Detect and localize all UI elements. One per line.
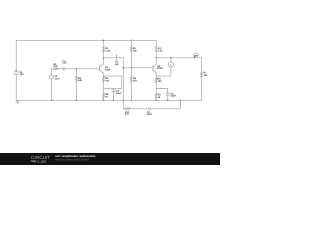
- svg-text:1mV: 1mV: [54, 78, 59, 81]
- svg-text:BC548B: BC548B: [157, 67, 163, 70]
- svg-text:10uF: 10uF: [170, 95, 176, 98]
- svg-text:http://circuitlab.com/c/7a25k2: http://circuitlab.com/c/7a25k2: [55, 159, 89, 162]
- svg-text:33k: 33k: [78, 79, 83, 82]
- svg-text:1.5k: 1.5k: [158, 50, 163, 53]
- svg-text:470: 470: [125, 113, 130, 116]
- svg-text:15k: 15k: [133, 50, 138, 53]
- svg-text:emi / amplificador realimentad: emi / amplificador realimentado: [55, 155, 96, 158]
- svg-text:10uF: 10uF: [147, 113, 153, 116]
- svg-text:1uF: 1uF: [115, 63, 120, 66]
- svg-text:15k: 15k: [133, 80, 138, 83]
- svg-text:100: 100: [158, 80, 163, 83]
- svg-text:1.5k: 1.5k: [105, 50, 110, 53]
- svg-text:100: 100: [53, 65, 58, 68]
- svg-text:10k: 10k: [203, 74, 208, 77]
- svg-text:LAB: LAB: [38, 159, 46, 164]
- svg-text:1uF: 1uF: [62, 62, 67, 65]
- svg-text:10uF: 10uF: [116, 92, 122, 95]
- svg-text:15V: 15V: [20, 73, 25, 76]
- svg-text:100: 100: [105, 80, 110, 83]
- svg-text:BC548B: BC548B: [105, 68, 111, 71]
